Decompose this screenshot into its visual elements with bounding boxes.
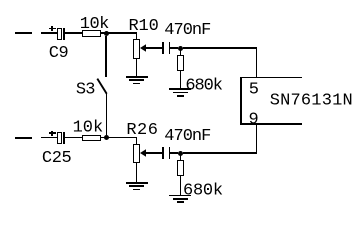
svg-text:680k: 680k bbox=[183, 181, 223, 200]
svg-text:SN76131N: SN76131N bbox=[270, 92, 353, 111]
svg-text:10k: 10k bbox=[73, 119, 104, 138]
svg-text:S3: S3 bbox=[76, 80, 95, 99]
svg-text:470nF: 470nF bbox=[164, 127, 210, 146]
svg-text:470nF: 470nF bbox=[164, 21, 210, 40]
svg-text:10k: 10k bbox=[80, 15, 109, 34]
svg-text:680k: 680k bbox=[185, 76, 222, 95]
svg-text:C9: C9 bbox=[49, 44, 69, 63]
svg-text:R26: R26 bbox=[126, 121, 158, 140]
svg-text:9: 9 bbox=[249, 111, 259, 130]
svg-text:R10: R10 bbox=[129, 17, 159, 36]
svg-text:5: 5 bbox=[249, 80, 259, 99]
svg-text:C25: C25 bbox=[42, 149, 72, 168]
